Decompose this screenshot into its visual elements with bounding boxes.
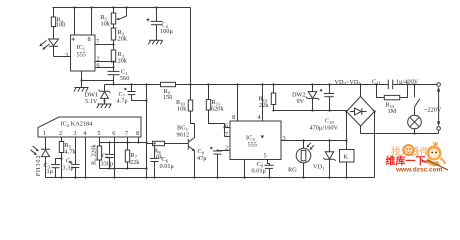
wire IC3 pin6 pin7 ties	[223, 126, 230, 136]
svg-text:8: 8	[88, 36, 91, 43]
wire IC2 pin1 stub	[45, 137, 47, 149]
wire IC3 pin2	[218, 150, 231, 152]
svg-text:1M: 1M	[388, 108, 397, 115]
svg-text:0.01μ: 0.01μ	[252, 168, 267, 175]
capacitor C2	[147, 8, 174, 41]
svg-text:100: 100	[56, 22, 65, 29]
resistor R12	[259, 85, 276, 111]
svg-text:K: K	[344, 154, 349, 161]
watermark dzsc logo	[386, 141, 449, 174]
svg-text:www.dzsc.com: www.dzsc.com	[395, 167, 443, 174]
wire lower sub-rail	[100, 168, 147, 170]
wire base line with resistor R8	[147, 141, 189, 160]
wire top rail right drop	[190, 8, 192, 85]
wire dc node line	[272, 109, 346, 111]
capacitor C7 electrolytic	[117, 85, 148, 105]
wire IC2 pin2 stub	[61, 137, 63, 142]
svg-text:22k: 22k	[130, 159, 140, 166]
svg-text:9V: 9V	[297, 98, 305, 105]
wire IC1 pin6	[95, 67, 114, 69]
wire mains bottom line	[361, 132, 439, 134]
svg-text:RG: RG	[288, 167, 297, 174]
svg-text:6: 6	[225, 123, 228, 130]
wire IC2 pin6 stub to rail	[113, 137, 115, 178]
svg-text:4.7k: 4.7k	[65, 148, 77, 155]
resistor R5	[59, 142, 76, 178]
svg-text:9012: 9012	[177, 131, 190, 138]
node bus junction dots	[130, 83, 415, 85]
wire bridge bottom to mains line	[360, 126, 362, 134]
svg-text:1μ/400V: 1μ/400V	[396, 78, 419, 85]
svg-text:470μ/160V: 470μ/160V	[310, 125, 339, 132]
svg-text:1: 1	[43, 130, 46, 137]
svg-text:10k: 10k	[101, 20, 111, 27]
zener diode DW2 9V	[292, 85, 319, 111]
svg-text:4.7μ: 4.7μ	[117, 97, 129, 104]
wire IC2 pin5 stub and sub-rail	[100, 137, 147, 144]
capacitor C5	[101, 143, 115, 170]
svg-text:~220V: ~220V	[424, 107, 442, 114]
resistor R11	[206, 85, 224, 137]
resistor R6	[91, 143, 102, 169]
wire bridge top to bus	[360, 85, 362, 97]
svg-text:150: 150	[163, 94, 172, 101]
svg-text:22k: 22k	[259, 102, 269, 109]
svg-text:8: 8	[232, 114, 235, 121]
op-amp IC3 555 timer	[225, 114, 286, 160]
wire long vertical from bus to rail	[145, 85, 147, 178]
wire IC2 pin4 ground stub	[85, 137, 87, 178]
wire IC1 pin1 and ground wire	[80, 71, 114, 88]
op-amp IC1 555 timer	[65, 35, 100, 71]
svg-text:2: 2	[59, 130, 62, 137]
op-amp IC2 KA2184	[38, 117, 141, 137]
svg-text:330p: 330p	[101, 160, 114, 167]
svg-text:VD2~VD5: VD2~VD5	[335, 79, 362, 86]
terminal ~220V plug	[424, 83, 442, 134]
svg-text:5.1V: 5.1V	[85, 98, 98, 105]
bridge rectifier VD2~VD5	[335, 79, 376, 126]
svg-text:47μ: 47μ	[197, 155, 207, 162]
capacitor C8 electrolytic	[197, 147, 222, 178]
svg-text:3.3μ: 3.3μ	[63, 164, 75, 171]
switch relay contact	[414, 85, 420, 108]
svg-text:620k: 620k	[211, 105, 224, 112]
LED IR emitting diode	[49, 39, 59, 57]
capacitor C11 in series	[372, 78, 419, 89]
resistor R1 potentiometer	[101, 8, 127, 28]
wire top supply rail	[53, 7, 191, 9]
lamp	[408, 108, 422, 134]
resistor R3	[111, 43, 127, 68]
label PH302 rotated	[35, 155, 42, 177]
svg-text:10k: 10k	[177, 105, 187, 112]
svg-text:20k: 20k	[118, 57, 128, 64]
wire IC1 pin7	[95, 44, 114, 46]
resistor R7	[125, 143, 140, 170]
svg-text:PH302: PH302	[35, 155, 42, 177]
photoresistor RG	[288, 141, 314, 178]
svg-text:1μ: 1μ	[47, 168, 54, 175]
svg-text:8: 8	[136, 130, 139, 137]
resistor R4	[51, 8, 65, 39]
capacitor C10 electrolytic	[310, 85, 339, 132]
zener diode DW1 5.1V	[85, 85, 111, 106]
wire IC3 pin4 stub	[262, 85, 264, 122]
svg-text:6: 6	[112, 130, 115, 137]
resistor R10	[176, 85, 195, 124]
svg-text:5: 5	[264, 153, 267, 160]
ground under DW1	[97, 104, 112, 108]
wire bridge left down to relay	[345, 112, 347, 150]
svg-text:7: 7	[125, 130, 128, 137]
diode VD1	[313, 141, 336, 178]
resistor R13 parallel loop	[377, 85, 408, 115]
wire IC2 pin7 stub	[127, 137, 129, 143]
wire IC2 pin8 stub	[138, 137, 140, 143]
svg-text:3: 3	[73, 130, 76, 137]
ground under IC1 pin1	[74, 88, 89, 92]
svg-text:0.01μ: 0.01μ	[160, 163, 175, 170]
svg-text:3: 3	[65, 52, 68, 59]
emission arrows	[39, 41, 49, 50]
svg-text:20k: 20k	[118, 35, 128, 42]
svg-text:IC2 KA2184: IC2 KA2184	[61, 121, 94, 128]
wire IC2 pin3 stub	[75, 137, 77, 164]
resistor R2	[111, 24, 127, 50]
wire IC3 pin1 ground stub	[244, 160, 246, 178]
wire mid supply bus	[105, 84, 437, 86]
reception arrows	[31, 146, 40, 155]
photodiode PH302	[41, 149, 50, 177]
ground under C2	[148, 40, 163, 44]
wire IC1 pin2	[95, 61, 114, 63]
wire IC3 pin3 output	[281, 139, 347, 141]
svg-text:555: 555	[77, 52, 86, 59]
wire LED to IC1 pin3	[54, 56, 71, 58]
node top rail junction dots	[73, 6, 157, 8]
capacitor C1	[108, 68, 130, 82]
capacitor C9 on pin5	[252, 160, 274, 178]
svg-text:7: 7	[225, 131, 228, 138]
svg-text:5: 5	[97, 130, 100, 137]
svg-text:R6 220k: R6 220k	[91, 143, 98, 165]
svg-text:100μ: 100μ	[160, 28, 173, 35]
resistor R9 150 in bus	[161, 82, 176, 101]
wire bridge right to rail	[374, 112, 376, 178]
wire main bottom rail	[46, 176, 375, 178]
relay coil K	[340, 150, 355, 178]
transistor BG1 9012	[177, 124, 195, 178]
wire IC3 pin8 stub	[237, 85, 239, 122]
svg-text:555: 555	[248, 142, 257, 149]
capacitor C6	[150, 142, 175, 177]
capacitor C3	[44, 157, 63, 177]
wire IC1 pin8 stub	[91, 8, 93, 36]
svg-text:560: 560	[120, 75, 129, 82]
capacitor C4 electrolytic	[63, 158, 80, 178]
wire IC1 pin4 stub	[74, 8, 76, 36]
